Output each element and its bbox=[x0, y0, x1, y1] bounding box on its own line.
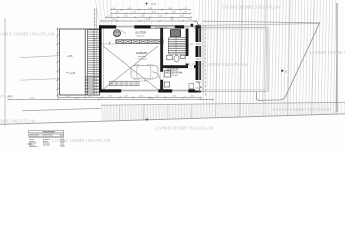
svg-text:LIVING HOME INGATLAN: LIVING HOME INGATLAN bbox=[273, 107, 332, 112]
svg-text:-2,95: -2,95 bbox=[67, 55, 73, 58]
svg-text:+2,30: +2,30 bbox=[69, 72, 76, 75]
svg-text:ELOTER: ELOTER bbox=[136, 31, 147, 35]
svg-text:osszesen: osszesen bbox=[29, 146, 37, 148]
svg-text:LIVING HOME INGATLAN: LIVING HOME INGATLAN bbox=[0, 32, 55, 37]
svg-text:burkolat: burkolat bbox=[43, 143, 50, 146]
svg-text:10,10: 10,10 bbox=[148, 98, 154, 100]
svg-text:GEPESZET: GEPESZET bbox=[167, 70, 180, 72]
svg-text:5,61 m2: 5,61 m2 bbox=[137, 35, 146, 37]
svg-text:LIVING HOME INGATLAN: LIVING HOME INGATLAN bbox=[310, 50, 345, 55]
svg-text:50,17: 50,17 bbox=[60, 146, 65, 148]
svg-text:GARAZS: GARAZS bbox=[136, 51, 147, 55]
svg-text:megj.: megj. bbox=[27, 144, 32, 146]
svg-text:burkolat: burkolat bbox=[138, 55, 146, 58]
svg-text:a: a bbox=[285, 69, 287, 73]
svg-text:+0,00: +0,00 bbox=[151, 4, 157, 6]
svg-text:31,95 m2: 31,95 m2 bbox=[138, 58, 148, 60]
svg-text:PINCESZINT: PINCESZINT bbox=[43, 132, 56, 134]
svg-text:MOSOKONYHA: MOSOKONYHA bbox=[166, 71, 183, 74]
svg-text:SZ:: SZ: bbox=[190, 44, 194, 46]
svg-text:sz: 2,98: sz: 2,98 bbox=[139, 81, 147, 83]
svg-text:LIVING HOME INGATLAN: LIVING HOME INGATLAN bbox=[0, 94, 14, 99]
svg-text:LIVING HOME INGATLAN: LIVING HOME INGATLAN bbox=[222, 5, 281, 10]
svg-text:LIVING HOME INGATLAN: LIVING HOME INGATLAN bbox=[155, 126, 214, 131]
svg-text:8,41 m2: 8,41 m2 bbox=[170, 75, 179, 77]
